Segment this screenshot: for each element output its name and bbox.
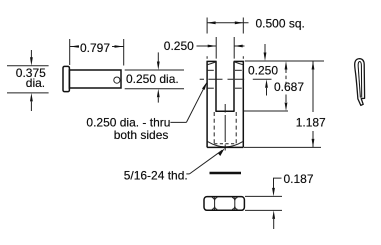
leader 0.250 dia. thru both sides [86,81,207,142]
dimension 0.250 slot width [164,37,245,59]
fork top extension line [245,60,324,62]
clevis pin hole [114,77,120,83]
fork hole centerline [200,78,272,80]
svg-text:5/16-24 thd.: 5/16-24 thd. [124,169,188,183]
fork slot bottom [215,110,234,112]
svg-text:0.500 sq.: 0.500 sq. [256,17,305,31]
dimension 0.187 [245,172,314,229]
cotter pin [355,59,365,106]
svg-text:0.250: 0.250 [164,39,194,53]
leader 5/16-24 thd. [124,148,225,182]
hex nut facet line right [234,197,236,209]
dimension 1.187 [244,61,326,147]
fork outer right edge [242,61,244,147]
dimension 0.250 top to hole center [248,44,278,96]
fork left prong top chamfer arc [208,62,216,65]
fork right prong inner edge [233,61,235,111]
clevis pin head [63,66,69,91]
fork right prong top chamfer arc [235,62,243,65]
svg-text:0.250: 0.250 [248,63,278,77]
fork hole top edge lines [207,69,214,71]
dimension 0.250 dia. (pin) [125,52,184,102]
dimension 0.687 [244,61,305,111]
dimension 0.375 dia. [7,50,49,111]
fork outer left edge [206,61,208,147]
svg-text:0.797: 0.797 [80,41,110,55]
svg-text:0.250 dia.: 0.250 dia. [126,72,179,86]
thread hole hidden line left [213,112,215,144]
fork hole bottom edge lines [207,87,214,89]
fork right prong top edge [234,60,244,62]
washer edge-on bar [210,172,242,175]
fork left prong top edge [207,60,217,62]
svg-text:1.187: 1.187 [296,115,326,129]
thread hole bottom hidden line [214,143,236,145]
fork bottom edge [207,146,243,148]
clevis pin shaft [69,70,121,88]
hex nut chamfer arcs [212,198,238,210]
hex nut body [204,197,244,211]
hex nut facet line left [214,197,216,209]
dimension 0.797 [70,39,124,66]
fork left prong inner edge [215,61,217,111]
thread hole hidden line right [235,112,237,144]
thread hole centerline [224,104,226,151]
svg-text:0.187: 0.187 [284,172,314,186]
svg-text:0.687: 0.687 [274,80,304,94]
svg-text:both sides: both sides [114,128,169,142]
dimension 0.500 sq. [207,17,305,59]
svg-text:dia.: dia. [26,76,45,90]
fork bottom chamfer arcs [207,141,243,147]
